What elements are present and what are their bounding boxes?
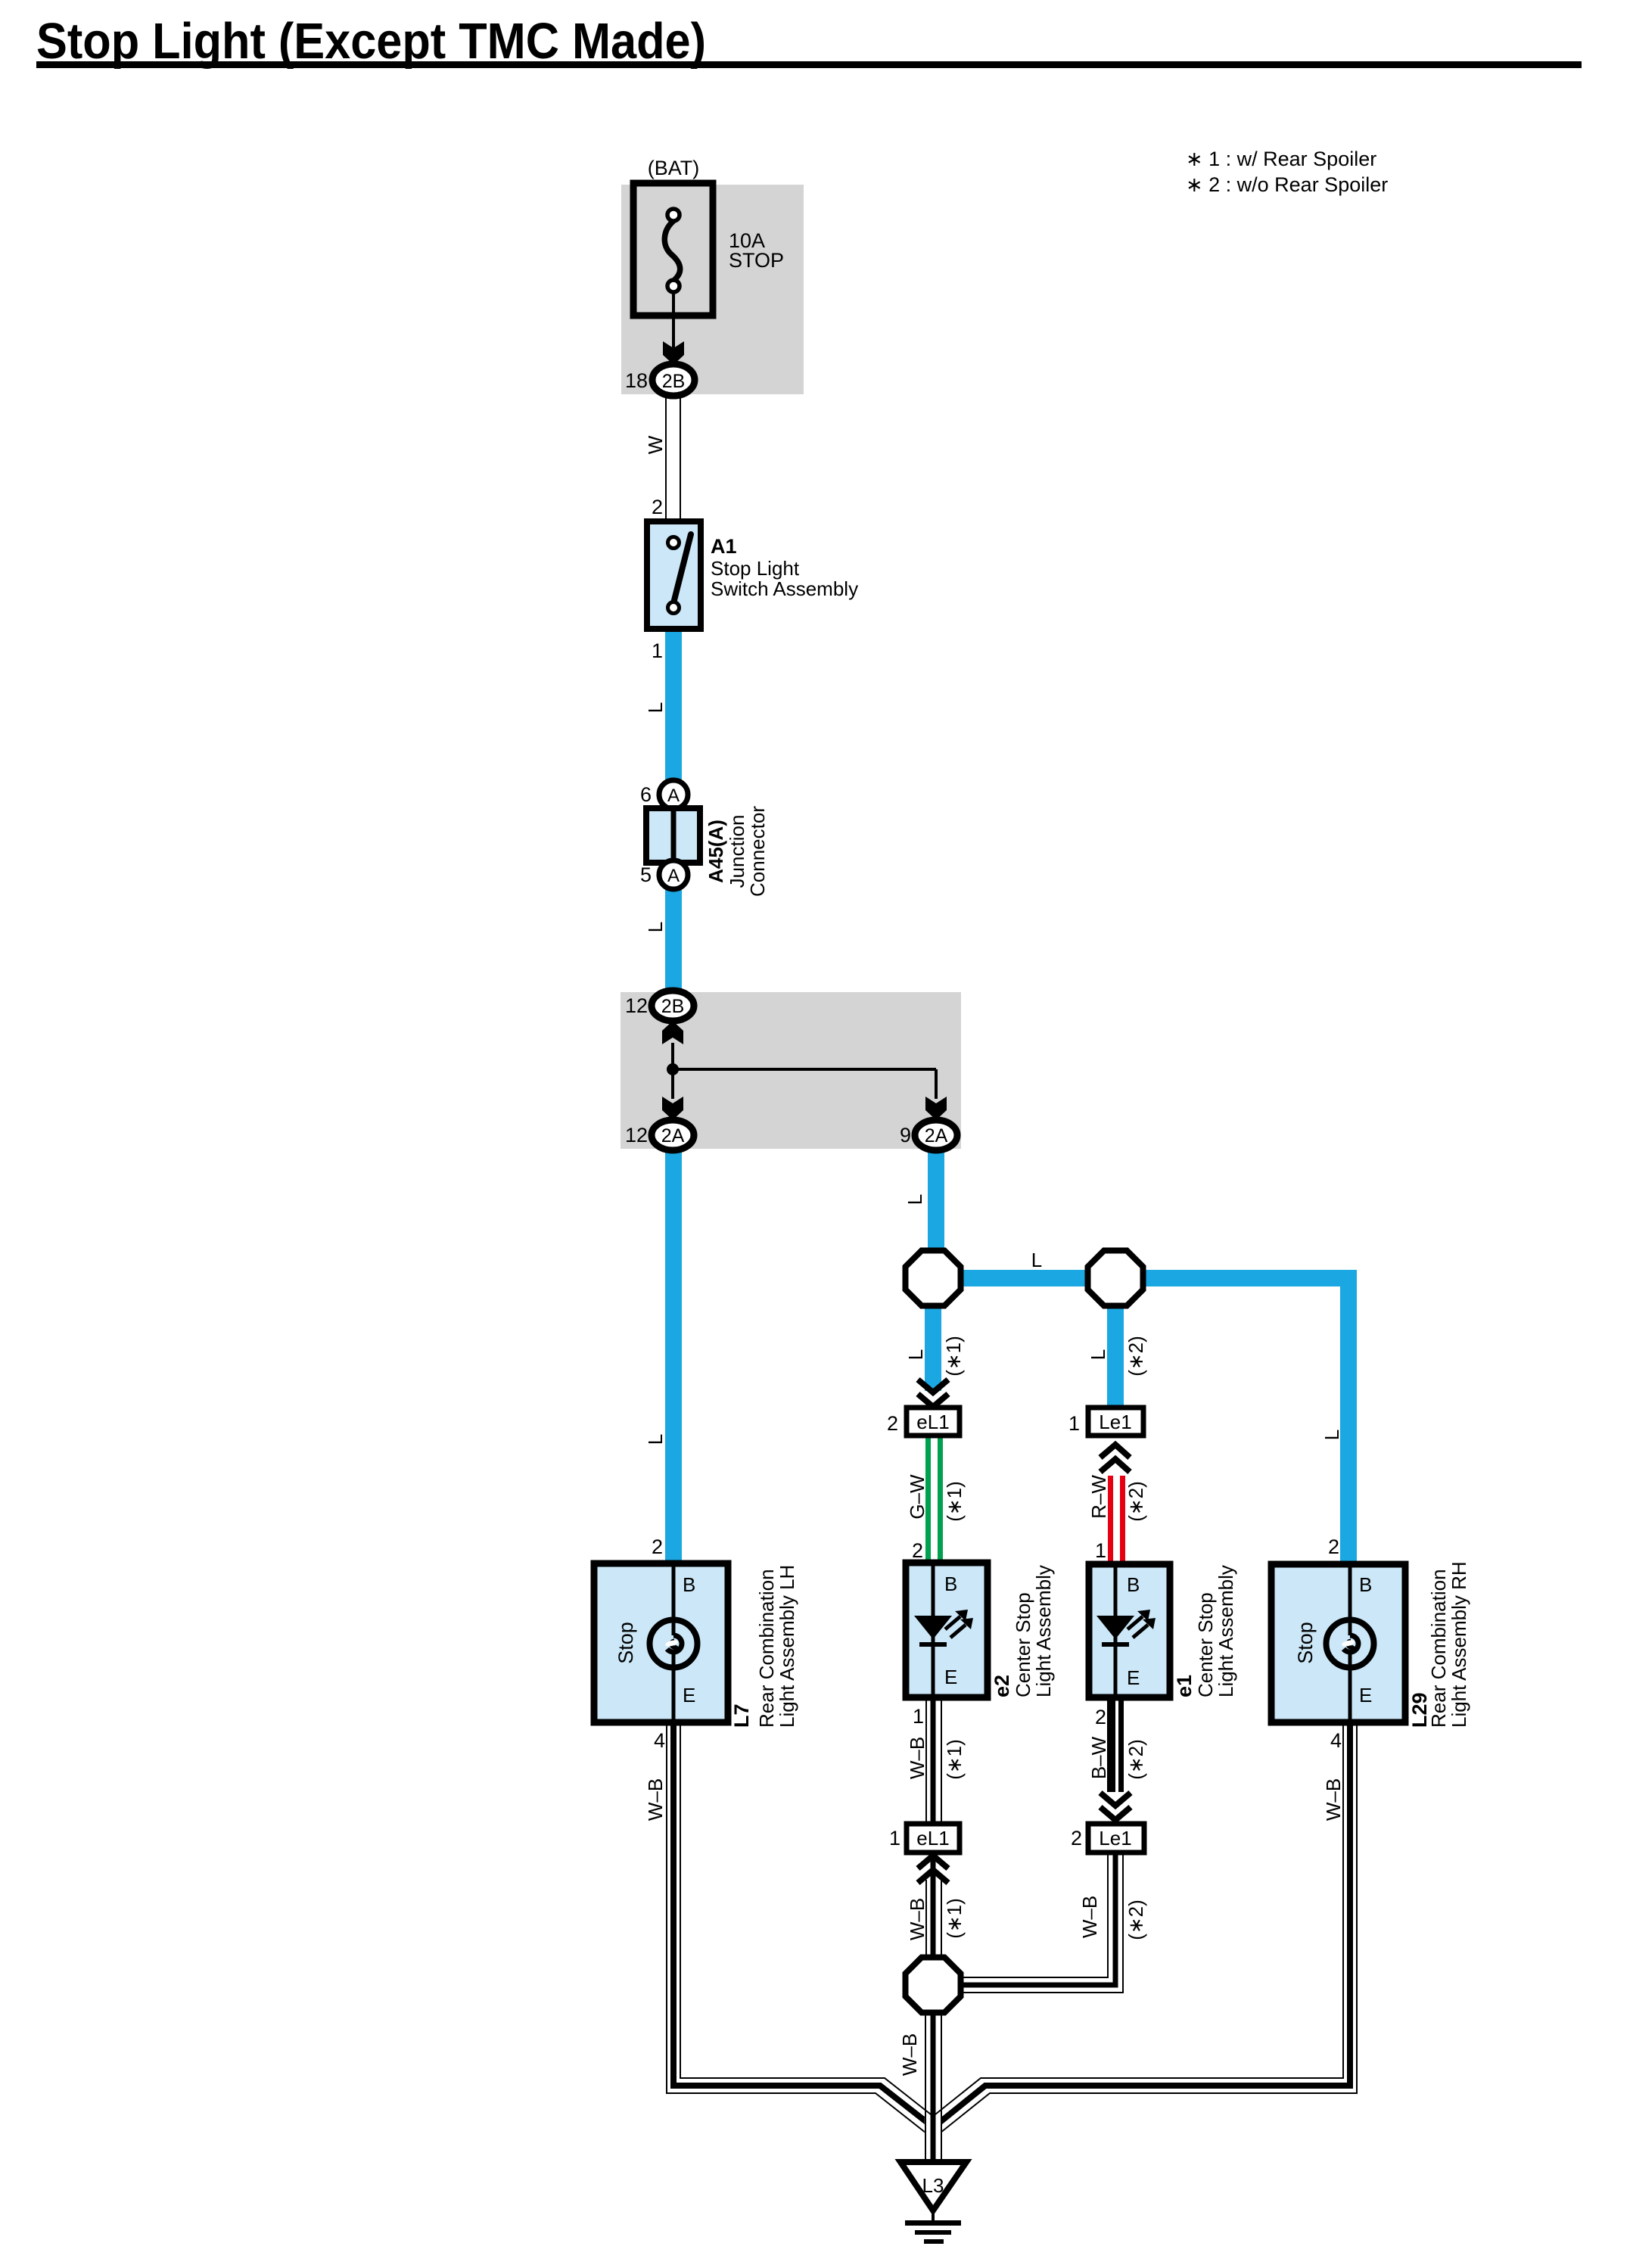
svg-text:2: 2 — [1328, 1535, 1339, 1558]
svg-text:B: B — [683, 1573, 695, 1596]
svg-text:Rear Combination: Rear Combination — [1427, 1569, 1450, 1728]
svg-text:B: B — [1127, 1573, 1140, 1596]
svg-text:Switch Assembly: Switch Assembly — [711, 577, 858, 600]
svg-text:1: 1 — [1095, 1539, 1106, 1562]
svg-text:W–B: W–B — [1322, 1778, 1345, 1821]
svg-text:1: 1 — [652, 639, 663, 662]
svg-text:W–B: W–B — [644, 1778, 667, 1821]
svg-text:5: 5 — [640, 863, 652, 886]
svg-text:W–B: W–B — [1078, 1896, 1101, 1938]
svg-text:1: 1 — [1068, 1412, 1080, 1435]
svg-text:eL1: eL1 — [916, 1827, 949, 1850]
svg-text:eL1: eL1 — [916, 1411, 949, 1433]
svg-text:Light Assembly: Light Assembly — [1215, 1565, 1237, 1697]
svg-text:2A: 2A — [661, 1125, 685, 1146]
svg-text:R–W: R–W — [1087, 1475, 1110, 1519]
svg-text:L: L — [904, 1194, 926, 1205]
svg-text:(∗2): (∗2) — [1124, 1739, 1147, 1780]
svg-text:(∗1): (∗1) — [943, 1739, 966, 1780]
svg-text:E: E — [1359, 1684, 1372, 1706]
svg-text:2: 2 — [912, 1539, 923, 1562]
svg-text:2: 2 — [652, 496, 663, 518]
svg-text:L: L — [904, 1349, 927, 1360]
svg-text:A1: A1 — [711, 535, 737, 558]
svg-text:B: B — [1359, 1573, 1372, 1596]
svg-text:e1: e1 — [1173, 1675, 1196, 1697]
svg-text:Light Assembly LH: Light Assembly LH — [776, 1565, 798, 1728]
svg-text:Light Assembly: Light Assembly — [1032, 1565, 1055, 1697]
svg-text:2B: 2B — [661, 996, 685, 1017]
svg-text:18: 18 — [625, 369, 648, 392]
svg-text:L: L — [1087, 1349, 1109, 1360]
svg-text:Center Stop: Center Stop — [1194, 1592, 1217, 1697]
svg-text:∗ 1 : w/ Rear Spoiler: ∗ 1 : w/ Rear Spoiler — [1186, 148, 1376, 170]
svg-text:W–B: W–B — [906, 1898, 928, 1940]
svg-text:(BAT): (BAT) — [648, 157, 700, 179]
svg-text:Stop: Stop — [1294, 1622, 1317, 1664]
svg-text:(∗2): (∗2) — [1124, 1336, 1147, 1377]
svg-text:9: 9 — [900, 1124, 911, 1146]
svg-text:A: A — [667, 866, 680, 886]
svg-text:L: L — [644, 702, 667, 713]
svg-text:1: 1 — [913, 1705, 924, 1728]
svg-text:Connector: Connector — [746, 806, 769, 897]
svg-text:E: E — [1127, 1666, 1140, 1689]
svg-text:2: 2 — [1095, 1706, 1106, 1728]
svg-text:2: 2 — [1071, 1827, 1082, 1850]
svg-text:(∗1): (∗1) — [943, 1898, 966, 1939]
svg-text:(∗2): (∗2) — [1124, 1481, 1147, 1522]
svg-text:G–W: G–W — [906, 1474, 928, 1520]
svg-text:2: 2 — [887, 1412, 898, 1435]
svg-text:1: 1 — [889, 1827, 900, 1850]
svg-text:Light Assembly RH: Light Assembly RH — [1448, 1561, 1470, 1728]
svg-text:L3: L3 — [922, 2174, 944, 2197]
svg-text:Le1: Le1 — [1099, 1411, 1131, 1433]
svg-text:Rear Combination: Rear Combination — [755, 1569, 778, 1728]
svg-text:Junction: Junction — [726, 815, 748, 888]
svg-text:W: W — [644, 435, 667, 454]
svg-text:2A: 2A — [925, 1125, 948, 1146]
svg-text:E: E — [683, 1684, 695, 1706]
svg-text:B–W: B–W — [1087, 1736, 1110, 1779]
svg-text:A45(A): A45(A) — [705, 820, 727, 883]
svg-text:L: L — [644, 922, 667, 932]
svg-text:L: L — [644, 1434, 667, 1445]
svg-text:W–B: W–B — [906, 1737, 928, 1779]
svg-text:E: E — [944, 1666, 957, 1688]
svg-text:A: A — [667, 786, 680, 806]
svg-text:4: 4 — [1330, 1729, 1342, 1752]
svg-text:Center Stop: Center Stop — [1012, 1592, 1034, 1697]
svg-text:STOP: STOP — [729, 249, 784, 272]
svg-text:B: B — [944, 1573, 957, 1595]
svg-text:Le1: Le1 — [1099, 1827, 1131, 1850]
svg-text:Stop: Stop — [614, 1622, 637, 1664]
svg-text:Stop Light: Stop Light — [711, 557, 800, 580]
svg-text:Stop Light (Except TMC Made): Stop Light (Except TMC Made) — [36, 13, 706, 70]
svg-text:(∗1): (∗1) — [942, 1336, 965, 1377]
svg-text:e2: e2 — [991, 1675, 1013, 1697]
svg-text:12: 12 — [625, 1124, 648, 1146]
svg-text:6: 6 — [640, 783, 652, 806]
svg-text:(∗2): (∗2) — [1124, 1899, 1147, 1940]
svg-text:4: 4 — [654, 1729, 665, 1752]
svg-text:12: 12 — [625, 994, 648, 1017]
svg-text:W–B: W–B — [898, 2033, 921, 2076]
svg-text:L: L — [1320, 1430, 1343, 1440]
svg-text:(∗1): (∗1) — [943, 1481, 966, 1522]
svg-text:L: L — [1031, 1249, 1042, 1271]
svg-text:∗ 2 : w/o Rear Spoiler: ∗ 2 : w/o Rear Spoiler — [1186, 173, 1388, 196]
svg-text:2: 2 — [652, 1535, 663, 1558]
svg-text:2B: 2B — [662, 371, 686, 392]
svg-text:L7: L7 — [730, 1703, 753, 1728]
